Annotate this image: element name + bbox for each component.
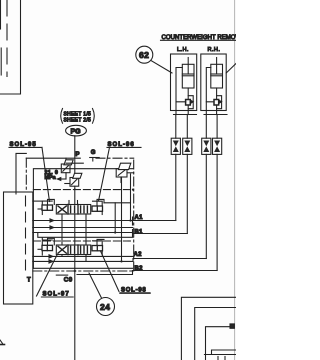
nested boundary 1 — [181, 297, 236, 360]
inner subplate box — [33, 169, 133, 269]
right pilot solenoid — [92, 246, 103, 251]
leader right edge to RH — [226, 64, 236, 74]
wire A1 internal riser — [130, 174, 132, 221]
envelope — [56, 205, 90, 215]
tank stub valve1 left solenoid — [33, 200, 43, 202]
G port tick — [90, 157, 100, 159]
pilot drain to C0 — [74, 255, 76, 360]
svg-text:PG: PG — [71, 128, 82, 135]
callout circle 24 — [97, 298, 115, 316]
svg-text:62: 62 — [139, 50, 149, 60]
junction dots — [129, 219, 131, 221]
coupler stems up — [175, 115, 177, 139]
svg-text:P: P — [76, 152, 80, 158]
valve1 bottom port drops — [61, 214, 63, 245]
left pilot solenoid — [42, 205, 53, 210]
callout circle 62 — [136, 46, 153, 63]
svg-text:L.H.: L.H. — [177, 47, 189, 53]
svg-text:T: T — [27, 278, 31, 284]
svg-text:SHEET 2/5: SHEET 2/5 — [64, 117, 92, 123]
relief valve 21.0MPa — [57, 158, 73, 180]
solenoid valve 2 (SOL-97 / SOL-98) — [38, 237, 104, 255]
nested boundary 2 — [195, 308, 236, 360]
leader 24 — [89, 273, 102, 298]
leader 62 to LH — [151, 61, 172, 73]
page edge line right — [234, 0, 236, 360]
drain line under valve1 — [38, 233, 133, 238]
leader SOL-96 — [99, 147, 110, 201]
couplers self-sealing x4 — [171, 138, 222, 154]
leader SOL-95 — [42, 147, 50, 201]
cylinder assembly L.H. — [171, 54, 197, 115]
lines below valve2 — [33, 255, 133, 257]
valve1 top port ticks — [68, 201, 70, 205]
svg-text:C0: C0 — [64, 276, 73, 283]
reducing valve center — [65, 173, 82, 188]
envelope — [56, 245, 90, 255]
pilot line PG vertical — [74, 136, 76, 177]
right pilot solenoid — [92, 206, 103, 211]
cylinder assembly R.H. — [201, 54, 227, 115]
bottom right component — [205, 350, 237, 360]
PG oval — [66, 125, 87, 136]
leader SOL-98 — [101, 251, 120, 292]
arrows on tank lines — [50, 219, 54, 222]
nested boundary 3 — [206, 327, 231, 360]
margin mark bottom-left — [0, 344, 5, 346]
svg-text:B1: B1 — [135, 230, 144, 236]
wire A2 internal riser — [121, 177, 123, 261]
pilot line PG continue to valve1 — [74, 189, 76, 205]
sol valve small (SOL-96 target) — [116, 163, 134, 182]
wire from P line down to tank top — [16, 153, 26, 194]
inner chain line above valve2 — [33, 240, 133, 242]
tank box top-left — [0, 0, 21, 94]
drain line B2 internal — [77, 271, 133, 275]
svg-text:A2: A2 — [134, 252, 143, 258]
svg-text:24: 24 — [100, 302, 110, 312]
wire B1 internal riser — [114, 203, 116, 233]
tank return lines valve1 — [33, 220, 133, 222]
valve block chain border — [26, 158, 133, 271]
wire tank stub left of C0 — [56, 274, 67, 276]
left pilot solenoid — [42, 245, 53, 250]
solenoid valve 1 (SOL-95 / SOL-96) — [38, 199, 104, 214]
wire P supply horizontal — [26, 157, 80, 159]
svg-text:G: G — [91, 150, 96, 156]
port block nested 3 — [230, 324, 234, 328]
wire relief to PG line — [66, 162, 83, 164]
svg-text:R.H.: R.H. — [208, 47, 221, 53]
leader SOL-97 — [37, 255, 58, 296]
tank box left (T) — [4, 192, 33, 304]
risers to couplers — [175, 154, 177, 220]
inner chain line above valve1 — [33, 189, 133, 191]
